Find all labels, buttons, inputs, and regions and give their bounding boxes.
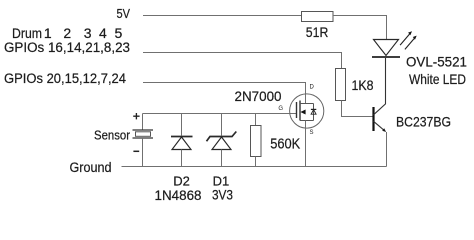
resistor R 51R [302,12,334,22]
MOSFET gate bar [296,102,298,118]
svg-text:G: G [278,106,283,112]
sensor piezo element [133,130,154,138]
wire D2 bottom lead [181,150,183,167]
resistor R 560K [251,126,262,157]
wire sensor bottom lead [142,138,144,167]
LED arrow 1 [400,34,409,45]
svg-text:BC237BG: BC237BG [396,114,451,130]
LED OVL-5521 [374,40,399,56]
sensor minus sign [133,150,139,152]
wire GPIO20 rail to MOSFET drain [143,83,306,104]
svg-text:GPIOs 16,14,21,8,23: GPIOs 16,14,21,8,23 [4,40,130,55]
wire 51R to LED corner [333,16,387,40]
wire emitter to ground [386,132,388,167]
svg-text:GPIOs 20,15,12,7,24: GPIOs 20,15,12,7,24 [4,71,126,86]
svg-text:1: 1 [44,25,52,41]
svg-text:1N4868: 1N4868 [155,188,202,203]
svg-text:Drum: Drum [12,25,42,41]
MOSFET channel bar [299,101,301,121]
resistor R 1K8 [336,69,346,101]
diode D2 cathode bar [171,136,193,138]
wire D1 top lead [221,114,223,136]
MOSFET body diode [311,108,316,110]
wire D1 bottom lead [221,150,223,167]
svg-text:S: S [310,130,314,136]
wire GPIO16 rail to 1K8 [143,53,342,69]
wire D2 top lead [181,114,183,136]
svg-text:D1: D1 [213,174,230,189]
transistor emitter arrowhead [382,128,386,132]
zener D1 cathode bar [207,132,237,142]
svg-text:Ground: Ground [70,160,112,175]
MOSFET body arrow [300,110,305,115]
wire gate rail (sensor line) [143,113,297,115]
svg-text:5: 5 [115,25,123,41]
svg-text:D2: D2 [173,174,190,189]
diode D2 triangle [172,137,191,150]
svg-text:51R: 51R [306,25,329,40]
wire ground rail [122,166,387,168]
svg-text:D: D [310,85,315,91]
wire 5V rail [143,15,302,17]
svg-text:Sensor: Sensor [94,128,131,143]
svg-text:1K8: 1K8 [352,78,374,93]
svg-text:2: 2 [63,25,71,41]
MOSFET body-diode branch vertical [313,104,315,121]
svg-text:560K: 560K [270,137,300,153]
svg-text:4: 4 [99,25,107,41]
wire 1K8 bottom to BJT base [342,101,373,117]
LED cathode bar [372,56,400,58]
LED arrow 2 [405,39,414,50]
sensor plus sign [133,113,139,119]
transistor emitter [374,121,385,130]
wire sensor top lead [142,114,144,131]
svg-text:2N7000: 2N7000 [235,88,282,104]
transistor Q1 BC237BG base bar [372,107,374,131]
MOSFET drain stub [300,103,314,105]
zener D1 triangle [212,137,231,150]
MOSFET 2N7000 body circle [290,94,324,128]
svg-text:OVL-5521: OVL-5521 [406,54,467,70]
svg-text:White LED: White LED [409,71,466,87]
wire MOSFET source lead to ground [305,121,307,167]
svg-text:3V3: 3V3 [212,187,233,202]
MOSFET source stub [300,120,314,122]
wire 560K bottom lead [255,157,257,167]
svg-text:5V: 5V [117,6,131,21]
wire 560K top lead [255,114,257,126]
transistor collector [374,58,386,115]
svg-text:3: 3 [84,25,92,41]
